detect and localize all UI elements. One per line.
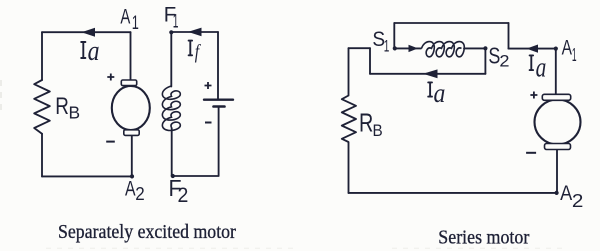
label Ia lower (right): I drawn as path [428, 82, 432, 96]
wire: battery to bottom [218, 107, 220, 176]
wire: left circuit left vertical (top) [41, 32, 43, 80]
node dot A2 (right) [555, 191, 559, 195]
node dot A2 corner (left circuit) [130, 174, 134, 178]
svg-text:2: 2 [499, 52, 509, 71]
svg-text:B: B [69, 102, 81, 122]
scan artifact: faint left-edge marks [0, 80, 2, 110]
minus sign (left motor) [106, 141, 115, 143]
label If: I drawn as path [189, 41, 193, 56]
wire: jog vertical down [369, 48, 371, 74]
inductor series field coil S (horizontal) [422, 42, 465, 57]
svg-text:R: R [359, 110, 373, 138]
svg-text:R: R [55, 93, 69, 120]
wire: right circuit bottom [349, 192, 557, 194]
svg-text:Separately excited motor: Separately excited motor [58, 221, 236, 243]
brush bottom (left motor) [124, 130, 139, 136]
wire: left circuit bottom [42, 175, 132, 177]
svg-text:f: f [195, 41, 201, 63]
battery plate short (-) [214, 105, 225, 108]
arrow If (field loop, pointing left) [188, 28, 202, 37]
svg-text:2: 2 [135, 183, 144, 204]
wire: RB left vertical top [348, 48, 350, 95]
wire: field loop top [171, 31, 218, 33]
inductor field winding F (vertical coil) [162, 86, 180, 131]
plus sign (right motor) [530, 92, 537, 99]
label Ia (left): I drawn as path [81, 42, 85, 58]
svg-text:1: 1 [132, 12, 139, 34]
arrow Ia lower (pointing left) [423, 69, 438, 78]
wire: field loop right vertical to battery [217, 32, 219, 99]
node dot field bottom-left [171, 174, 175, 178]
motor M2 armature circle (right) [535, 100, 581, 145]
svg-text:a: a [434, 78, 446, 109]
svg-text:a: a [88, 36, 100, 67]
brush top (left motor) [121, 80, 136, 86]
wire: motor to A2 corner [131, 136, 133, 177]
wire: left circuit left vertical (bottom) [41, 134, 43, 177]
wire: A1 to bypass corner [509, 48, 556, 50]
wire: field loop bottom [172, 175, 218, 177]
battery plus sign [205, 82, 212, 89]
wire: field loop left vertical bottom [171, 128, 173, 176]
battery plate long (+) [204, 98, 233, 100]
wire: RB top to jog (right circuit) [349, 47, 371, 49]
label Ia upper (right): I drawn as path [530, 55, 534, 70]
svg-text:A: A [125, 177, 136, 200]
wire: RB left vertical bottom [348, 142, 350, 193]
resistor RB (right circuit) [342, 96, 356, 143]
wire: motor to A2 [556, 150, 558, 193]
wire: lower horizontal to S2 [370, 73, 485, 75]
wire: field loop left vertical top [170, 32, 172, 87]
svg-text:B: B [373, 121, 383, 140]
node dot S2 [483, 46, 487, 50]
arrow Ia (left circuit, pointing left) [82, 28, 96, 37]
node dot S1 [393, 46, 397, 50]
node dot A1 (right) [554, 47, 558, 51]
minus sign (right motor) [526, 152, 536, 154]
scan artifact: faint bottom dashed line [46, 247, 565, 249]
svg-text:2: 2 [572, 190, 584, 211]
svg-text:1: 1 [173, 11, 179, 33]
svg-text:A: A [120, 5, 130, 28]
svg-text:1: 1 [572, 44, 577, 65]
wire: A1 down to motor [555, 49, 557, 95]
wire: bypass left vertical S1 up [393, 23, 395, 48]
wire: left circuit top [42, 31, 131, 33]
wire: S1 to coil [395, 47, 421, 49]
svg-text:2: 2 [178, 183, 189, 207]
wire: bypass top [394, 22, 508, 24]
node dot field top-left [169, 30, 173, 34]
wire: up to S2 node [484, 48, 486, 73]
wire: coil to S2 [464, 47, 485, 49]
brush bottom (right motor) [545, 144, 571, 150]
plus sign (left motor) [107, 74, 114, 81]
svg-text:a: a [536, 53, 547, 84]
svg-text:1: 1 [384, 38, 390, 56]
svg-text:Series motor: Series motor [438, 227, 529, 249]
brush top (right motor) [542, 94, 570, 100]
battery minus sign [205, 122, 212, 124]
arrow Ia near A1 (pointing left) [527, 45, 539, 53]
motor M1 armature circle (left) [112, 86, 150, 130]
wire: A1 down to motor [130, 32, 132, 80]
resistor RB (left circuit) [34, 80, 50, 134]
wire: bypass right vertical [508, 23, 510, 49]
arrow into coil (pointing right) [409, 45, 419, 52]
